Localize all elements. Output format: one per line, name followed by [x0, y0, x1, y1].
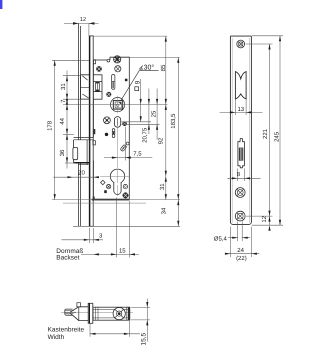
Kastenbreite dim line [90, 321, 140, 337]
slotted pin above hub [112, 75, 115, 90]
svg-text:30°: 30° [144, 65, 155, 72]
case top extension line to dim 183.5 [129, 56, 179, 58]
latch opening [235, 72, 246, 99]
dim 13 [220, 100, 263, 116]
pin on case top step [107, 59, 110, 62]
svg-text:8: 8 [237, 171, 241, 178]
svg-text:12: 12 [261, 215, 268, 222]
svg-text:36: 36 [59, 149, 66, 156]
striker faceplate bar [230, 36, 251, 224]
dim line F: 183.5 / 34 [177, 57, 179, 226]
left dims: extension lines [52, 60, 167, 163]
case bottom datum line [52, 199, 180, 201]
angle symbol [139, 66, 143, 70]
svg-text:9: 9 [134, 80, 141, 84]
svg-text:15,5: 15,5 [141, 332, 148, 345]
bar top extension [252, 35, 283, 37]
dim 25 [122, 89, 160, 140]
backset dim line with 15 [81, 198, 139, 258]
svg-text:44: 44 [59, 117, 66, 124]
svg-text:7,5: 7,5 [133, 151, 142, 158]
svg-text:Width: Width [48, 334, 65, 341]
svg-text:Backset: Backset [56, 254, 79, 261]
small slotted piece [112, 129, 115, 138]
dim 24 [225, 227, 259, 258]
cylinder slot in bar [238, 139, 245, 168]
tab on faceplate back top [93, 60, 95, 64]
faceplate top extension line to dim 85 [94, 35, 168, 37]
euro profile cylinder hole [110, 169, 124, 194]
diagonal slotted pin [120, 144, 127, 151]
svg-text:31: 31 [60, 83, 67, 90]
svg-text:245: 245 [274, 131, 281, 142]
svg-text:12: 12 [80, 17, 86, 23]
svg-text:85: 85 [160, 64, 167, 71]
case bottom view [93, 307, 130, 320]
slotted link below hub [114, 117, 120, 128]
svg-text:25: 25 [150, 110, 157, 117]
rivet left of hub [106, 92, 111, 97]
svg-text:24: 24 [237, 247, 244, 254]
svg-text:20,75: 20,75 [142, 127, 149, 143]
dim 3 (faceplate) [62, 228, 104, 243]
small dark square left of slot [104, 190, 107, 193]
svg-text:178: 178 [47, 120, 54, 131]
dim 15.5 bottom [131, 299, 150, 342]
screws beside cylinder slot [106, 184, 110, 188]
svg-text:221: 221 [262, 128, 269, 139]
tiny circle at case right edge [126, 142, 129, 145]
deadbolt front view [73, 138, 93, 165]
follower nut bottom view [113, 308, 125, 320]
svg-text:Kastenbreite: Kastenbreite [48, 327, 85, 334]
square 9 symbol [135, 87, 139, 91]
pin with extension lines (25 / 20.75 target) [122, 122, 127, 127]
dim chain 31/7/44/36 line [66, 71, 68, 169]
latch bolt front view [81, 75, 90, 99]
svg-text:183,5: 183,5 [170, 113, 177, 129]
rivet upper-left [96, 66, 102, 72]
svg-text:31: 31 [159, 183, 166, 190]
dark screw bottom-right corner [123, 192, 129, 198]
handle hub [111, 98, 125, 112]
lock case outline [92, 57, 130, 199]
dim line E: 85 / 92 / 31 [165, 36, 167, 200]
lower thin construction line [63, 202, 146, 204]
bar bottom extension [252, 224, 283, 226]
rod end bottom view [77, 303, 81, 307]
blue corner artifact [0, 0, 2, 9]
latch head bottom view [70, 307, 88, 321]
small dark pin near right edge [125, 79, 128, 82]
svg-text:3: 3 [99, 233, 103, 240]
faceplate front view [89, 36, 94, 226]
bottom screw right view [235, 211, 245, 221]
svg-text:(22): (22) [236, 255, 247, 262]
top screw right view [237, 40, 245, 48]
top screw on case edge [114, 56, 121, 63]
dim 221 and 12 line [268, 44, 270, 231]
svg-text:15: 15 [119, 247, 126, 254]
svg-text:92: 92 [158, 137, 165, 144]
dim 20.75 [122, 79, 152, 122]
black dot [105, 133, 108, 136]
dim 12 line [64, 22, 99, 36]
rivet below top screw [115, 66, 121, 72]
tiny mark bottom-left of case [93, 196, 95, 199]
dim 20 (deadbolt throw) [53, 176, 99, 178]
screw centre extension bottom [246, 215, 273, 217]
dim dia 5.4 [228, 222, 250, 242]
dim 8 [228, 169, 261, 182]
small rects on case left edge [93, 129, 96, 145]
cylinder centre lines [100, 175, 129, 177]
hub centre lines [117, 96, 119, 113]
faceplate bottom view [88, 303, 93, 323]
svg-text:34: 34 [161, 207, 168, 214]
middle screw right view [235, 188, 245, 198]
dim 7.5 [104, 127, 152, 161]
bottom view centre line [61, 312, 133, 314]
drive rod [78, 23, 80, 226]
svg-text:Ø5,4: Ø5,4 [214, 235, 228, 242]
dim 178 [54, 60, 56, 199]
screw centre extension top [246, 43, 273, 45]
latch tail inside case [93, 75, 102, 99]
svg-text:20: 20 [78, 169, 85, 176]
svg-text:13: 13 [237, 106, 244, 113]
latch shaft bottom view [65, 309, 76, 315]
leader 30deg [121, 71, 159, 101]
dim 245 [279, 36, 281, 225]
faceplate bottom extension [73, 225, 180, 227]
diamond pin left of cylinder [101, 180, 106, 185]
rivet below-left of hub [104, 117, 111, 124]
